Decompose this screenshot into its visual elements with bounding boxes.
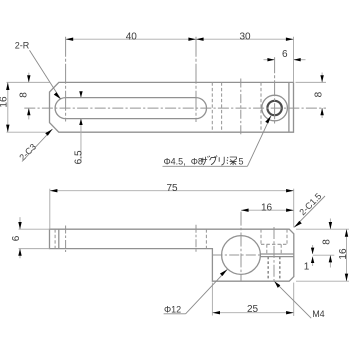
hidden lines plan	[212, 82, 261, 132]
label phi4.5 phi8 counterbore	[163, 116, 272, 167]
svg-text:M4: M4	[312, 309, 325, 319]
extension + dim lines front	[19, 189, 349, 316]
ext bottom edge left	[7, 131, 50, 133]
ext top edge right	[296, 81, 327, 83]
slot (stadium)	[55, 98, 206, 119]
svg-text:30: 30	[239, 32, 251, 43]
svg-text:16: 16	[261, 203, 273, 214]
svg-text:25: 25	[247, 304, 259, 315]
arrow 1 bottom outside	[311, 257, 314, 263]
hidden lines front	[55, 229, 287, 254]
counterbore hole outer circle	[262, 95, 288, 121]
arrow 6 left outside	[267, 58, 274, 61]
svg-text:6.5: 6.5	[73, 150, 84, 164]
kanji strokes for "zaguri" counterbore note	[201, 156, 237, 166]
ext 6 left bottom	[19, 248, 50, 250]
M4 tap hidden (thick dashes)	[268, 257, 280, 282]
label phi12	[164, 269, 228, 314]
svg-text:Φ4.5, Φ8: Φ4.5, Φ8	[164, 157, 203, 167]
arrow 40 left	[66, 38, 74, 41]
svg-text:6: 6	[11, 235, 22, 241]
slit top line	[260, 253, 293, 255]
arrow 16 bottom	[6, 125, 9, 133]
arrow 8 left bottom outside	[27, 108, 30, 115]
svg-text:Φ12: Φ12	[164, 304, 181, 314]
svg-text:6: 6	[282, 49, 288, 60]
arrow 6.5 top outside	[79, 91, 82, 97]
svg-text:16: 16	[0, 96, 9, 108]
ext 25 left	[211, 283, 213, 316]
svg-text:8: 8	[314, 91, 325, 97]
dim line 1 slit	[312, 245, 314, 254]
ext right edge up (75/16)	[293, 189, 295, 228]
tap right	[279, 257, 281, 282]
hidden phi4.5 right	[280, 244, 282, 254]
label M4	[274, 281, 324, 319]
dim line 40	[66, 38, 196, 40]
dim line 6 top	[264, 59, 275, 61]
svg-text:75: 75	[166, 183, 178, 194]
dim line 6.5	[80, 92, 82, 98]
hidden: block left edge	[211, 82, 213, 132]
arrow 16top right	[286, 209, 294, 212]
cl slot left arc	[65, 226, 67, 253]
svg-text:2-C3: 2-C3	[17, 142, 38, 163]
label 2-R	[15, 40, 61, 99]
ext 6 left top	[19, 228, 50, 230]
svg-text:16: 16	[338, 248, 349, 260]
hidden slot left end	[54, 229, 56, 248]
hidden: phi12 hole far edge	[260, 82, 262, 132]
cl slot right arc	[195, 225, 197, 254]
arrow 8 right top outside	[320, 75, 323, 82]
extension lines plan	[7, 37, 327, 163]
dim line 16 right	[346, 229, 348, 281]
arrow 16 right bottom	[345, 274, 348, 282]
arrow 30 left	[196, 38, 204, 41]
chamfer projection line right end	[288, 82, 290, 132]
svg-text:1: 1	[304, 261, 310, 272]
svg-text:8: 8	[19, 92, 30, 98]
label 2-C1.5	[294, 191, 325, 227]
hidden counterbore right	[286, 229, 288, 244]
cl tap hole vertical	[273, 227, 275, 281]
svg-text:2-C1.5: 2-C1.5	[297, 191, 323, 217]
slit bottom line	[260, 256, 293, 258]
svg-text:8: 8	[322, 239, 333, 245]
front outline	[50, 229, 294, 281]
vertical centerline slot left arc + 40dim extension	[65, 37, 67, 122]
cl phi12 vertical + 16dim ext	[240, 212, 242, 281]
arrow 6 left top outside	[18, 222, 21, 229]
hidden: phi12 hole near edge	[221, 82, 223, 132]
vertical centerline counterbore hole + 6dim extension	[274, 57, 276, 123]
arrow 8 left top outside	[27, 75, 30, 82]
arrow 30 right	[286, 38, 294, 41]
ext bottom right (16dim)	[296, 280, 349, 282]
arrow 75 right	[286, 189, 294, 192]
phi12 bore circle	[222, 236, 261, 275]
dim line 8 right	[321, 73, 323, 83]
arrow 8 right bottom outside	[320, 108, 323, 115]
dim texts plan	[0, 32, 325, 165]
arrow 6 right outside	[294, 58, 301, 61]
dim line 16 left	[7, 82, 9, 132]
tap left	[267, 257, 269, 282]
counterbore hole inner circle (thick)	[267, 101, 281, 115]
svg-text:5: 5	[239, 157, 244, 167]
part outline plan	[50, 82, 294, 132]
ext 75 left	[49, 189, 51, 230]
arrow 25 right	[286, 311, 294, 314]
hidden counterbore bottom	[261, 243, 287, 245]
dim line 30	[196, 38, 294, 40]
arrow 8 right top outside	[329, 222, 332, 229]
dim line 25	[212, 312, 293, 314]
arrow 25 left	[212, 311, 220, 314]
dim line 75	[50, 190, 294, 192]
label 2-C3	[17, 129, 52, 163]
main horizontal centerline	[24, 107, 326, 109]
ext top edge left	[7, 81, 50, 83]
arrowheads front dims	[18, 189, 348, 314]
arrowheads plan dims	[6, 38, 324, 133]
arrow 40 right	[188, 38, 196, 41]
arrow 8 right bottom outside	[329, 255, 332, 262]
ext top right (8/16)	[296, 228, 349, 230]
ext right edge up	[293, 37, 295, 83]
arrow 16top left	[241, 209, 249, 212]
arrow 1 top outside	[311, 248, 314, 254]
chamfer edge line left (plan chamfer projection)	[58, 229, 60, 248]
underline + leader	[163, 165, 248, 167]
arrow 6 left bottom outside	[18, 249, 21, 256]
ext 25 right	[293, 283, 295, 316]
dim line 8 left	[28, 73, 30, 83]
centerlines front	[66, 212, 274, 282]
ext slit center right (8dim)	[313, 254, 334, 256]
arrow 16 top	[6, 82, 9, 90]
dim line 6 left	[19, 217, 21, 229]
hidden counterbore left	[260, 229, 262, 244]
arrow 75 left	[50, 189, 58, 192]
arrow 16 right top	[345, 229, 348, 237]
dim texts front	[11, 183, 349, 315]
hidden slot right end	[205, 229, 207, 248]
dim line 16 top	[241, 209, 294, 211]
dim line 8 right	[329, 219, 331, 230]
vertical centerline slot right arc + 30dim extension	[195, 37, 197, 122]
arrow 6.5 bottom outside	[79, 119, 82, 125]
vertical centerline phi12 axis	[240, 79, 242, 137]
svg-text:2-R: 2-R	[15, 40, 30, 50]
centerlines plan	[24, 37, 326, 137]
cl phi12 horizontal	[213, 254, 262, 256]
svg-text:40: 40	[126, 32, 138, 43]
hidden phi4.5 left	[266, 244, 268, 254]
